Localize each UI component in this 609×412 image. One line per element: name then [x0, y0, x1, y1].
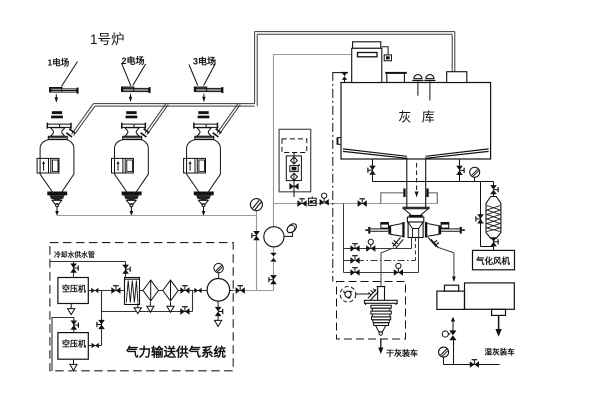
- bypass valve: [180, 307, 189, 315]
- gauge stem: [474, 177, 476, 181]
- silo roof relief valve: [333, 73, 348, 83]
- roof platform: [387, 74, 405, 83]
- chute bellows: [371, 305, 391, 325]
- valve on junction vertical: [97, 320, 105, 329]
- diamond valve lower in control box: [291, 173, 298, 180]
- junction vertical: [101, 291, 103, 346]
- chute top tube: [377, 287, 386, 301]
- fluidizing bracket right: [429, 193, 438, 204]
- receiver drain valve: [215, 307, 223, 316]
- filter 1: [143, 280, 158, 301]
- chute tail ball: [379, 332, 382, 335]
- valve line3: [350, 268, 359, 276]
- fluidizing air header (gray): [274, 203, 438, 205]
- chute inlet pipe hatches: [368, 289, 376, 296]
- bag filter cap: [353, 42, 381, 49]
- control valve on fluidizing header: [320, 193, 329, 206]
- blow line 1: [344, 248, 412, 250]
- regulator device in control box: [290, 165, 300, 171]
- pump tank vessel 3: [184, 111, 222, 206]
- supply shutoff valve outside box: [236, 286, 245, 294]
- receiver pressure gauge: [214, 263, 223, 272]
- roof inlet box: [447, 72, 467, 83]
- SEC_DOME: [407, 158, 426, 208]
- blower circle: [264, 227, 284, 247]
- blow line 2 dash-dot: [344, 260, 416, 262]
- dome valve side flange left (black): [402, 222, 404, 238]
- dash-dot boundary line: [332, 72, 334, 282]
- bypass drop: [480, 182, 482, 247]
- funnel top bar: [403, 207, 430, 208]
- pneumatic supply system dashed box: [50, 243, 233, 371]
- svg-text:库: 库: [422, 110, 435, 125]
- receiver drain stem: [217, 302, 219, 308]
- pump tank vessel 2: [111, 111, 149, 206]
- heater top valve: [490, 185, 498, 194]
- funnel cone: [404, 209, 429, 215]
- heater bottom valve: [490, 237, 498, 246]
- water supply line: [444, 364, 500, 366]
- svg-text:气力输送供气系统: 气力输送供气系统: [125, 345, 227, 360]
- dome valve upper box: [407, 217, 423, 222]
- SEC_TOP: [61, 62, 215, 87]
- vessel3 conveying diagonal: [217, 103, 240, 134]
- heat exchanger box: [125, 278, 140, 305]
- wet ash feed arrow: [452, 277, 456, 283]
- wet mixer ash inlet arrow already above; water inlet arrow: [451, 317, 455, 331]
- control valve line3: [394, 263, 403, 276]
- receiver drain triangle: [215, 316, 222, 327]
- wet mixer outlet box: [492, 309, 506, 315]
- inner device rect: [286, 156, 301, 181]
- left shaft: [370, 229, 388, 231]
- wet ash truck arrow: [495, 315, 501, 336]
- SEC_CENTER: [57, 55, 438, 291]
- blow feed vertical: [343, 204, 345, 273]
- svg-text:3电场: 3电场: [193, 56, 216, 67]
- svg-text:灰: 灰: [398, 110, 411, 125]
- dry ash truck arrow: [378, 339, 383, 355]
- water line valve: [470, 360, 479, 368]
- discharge tube flange left: [403, 189, 405, 198]
- fluidizing bracket left: [381, 193, 404, 204]
- feeder 2: [121, 87, 151, 94]
- vessel 2 discharge arrow: [130, 207, 132, 211]
- gauge stem: [443, 357, 445, 364]
- blower suction valve lower: [269, 275, 277, 284]
- valve on fluidizing header left: [297, 199, 306, 207]
- svg-text:空压机: 空压机: [62, 284, 86, 294]
- feeder 3: [194, 87, 224, 94]
- air compressor 1 box: [58, 278, 88, 304]
- main air line segments: [88, 290, 233, 292]
- right shaft: [441, 229, 460, 231]
- cooling valve compressor2: [71, 321, 79, 330]
- heater coil: [487, 206, 500, 232]
- check valve after compressor1: [91, 288, 98, 294]
- left cone flange (black): [388, 225, 390, 234]
- right cone flange (black): [439, 225, 441, 234]
- drain below filter2: [167, 302, 174, 313]
- cooling valve HX: [122, 265, 130, 274]
- bypass elbow: [481, 246, 494, 248]
- left actuator box with black cap: [380, 222, 389, 228]
- arrow below feeder 3: [202, 94, 205, 103]
- discharge tube dashed flow arrow: [416, 163, 418, 192]
- mushroom vent 1: [412, 75, 423, 81]
- valve line2: [350, 256, 359, 264]
- dryer bypass line: [102, 291, 193, 312]
- leader V field3 left: [189, 65, 198, 86]
- arrow below feeder 1: [55, 94, 58, 103]
- air heater vessel: [486, 197, 501, 239]
- conveying header double line: [93, 104, 254, 107]
- outlet valve after filters: [180, 286, 189, 294]
- bag filter vibrator motor: [384, 55, 391, 61]
- compressor2 outlet: [88, 345, 101, 347]
- leader V field2 left: [122, 63, 131, 86]
- wet mixer inlet box: [445, 285, 459, 291]
- dome valve internal seat: [408, 222, 423, 238]
- water control valve with actuator circle: [442, 330, 456, 340]
- right shaft tip: [462, 229, 465, 231]
- cooling water header: [50, 261, 125, 263]
- svg-text:湿灰装车: 湿灰装车: [485, 347, 516, 357]
- dome valve top flange (black): [409, 215, 423, 217]
- header left elbow to vessel1 diagonal: [72, 104, 95, 136]
- receiver gauge stem: [218, 273, 220, 278]
- SEC_TEXTS: [48, 32, 516, 360]
- right outlet leg double: [428, 238, 439, 249]
- wet mixer left box: [437, 291, 465, 309]
- chute top flange plate: [365, 300, 398, 305]
- aeration pressure gauge: [470, 167, 480, 177]
- dry ash chute feed line: [381, 248, 394, 287]
- valve line1: [350, 244, 359, 252]
- svg-text:空压机: 空压机: [62, 339, 86, 349]
- down leg double line into silo inlet box: [452, 32, 455, 72]
- water line vertical: [453, 340, 455, 364]
- dust fan rotor: [344, 291, 353, 299]
- fan outlet line: [356, 293, 370, 295]
- valve on damper drop: [252, 231, 260, 240]
- diamond valve upper in control box: [291, 157, 298, 164]
- riser double line to top: [255, 32, 258, 107]
- SEC_HEATER: [373, 159, 494, 250]
- bag filter inner window: [358, 53, 378, 57]
- bag filter side pipe bracket: [382, 47, 388, 55]
- pulse air top run to bag filter: [274, 54, 352, 56]
- heat exchanger coil: [126, 281, 138, 303]
- check valve after compressor2: [92, 343, 99, 349]
- svg-text:气化风机: 气化风机: [475, 256, 511, 266]
- heater risers: [493, 193, 495, 197]
- control box (pressure reducing station): [279, 129, 311, 192]
- left leg flange ticks: [392, 240, 398, 246]
- svg-text:1号炉: 1号炉: [90, 32, 125, 47]
- top run double line: [255, 32, 455, 35]
- leader line field1: [61, 62, 77, 87]
- wet ash feed line: [438, 247, 454, 276]
- vent 2 stem: [429, 81, 431, 101]
- bypass valve: [476, 214, 484, 223]
- air compressor 2 box: [58, 333, 88, 360]
- arrow below feeder 2: [129, 94, 132, 103]
- aeration header: [373, 181, 494, 183]
- leader V field3 right: [204, 64, 216, 86]
- mushroom vent 2: [424, 75, 435, 81]
- dry ash loading dashed box: [337, 282, 406, 340]
- cooling valve compressor1: [70, 264, 78, 273]
- tube left wall stub: [411, 238, 413, 249]
- water pressure gauge: [439, 347, 449, 357]
- valve below control box: [289, 183, 298, 190]
- inlet valve HX: [111, 286, 120, 294]
- feeder 1: [49, 87, 79, 94]
- blower motor tilted wheel: [285, 222, 298, 234]
- vent 1 stem: [417, 81, 419, 96]
- silo level probe: [337, 138, 341, 145]
- drain below compressor1: [68, 304, 75, 315]
- blower suction valve upper: [271, 253, 277, 261]
- aeration valve right: [456, 166, 464, 175]
- drain below HX: [134, 303, 141, 314]
- drain below compressor2: [70, 360, 77, 371]
- leader V field2 right: [133, 64, 146, 86]
- drop to compressor1: [73, 262, 75, 278]
- chute inlet diagonal pipe: [368, 289, 378, 300]
- supply line from compressor box: [233, 290, 273, 292]
- aeration drop left: [372, 159, 374, 182]
- dome valve main body: [408, 222, 423, 238]
- compressor2 cooling feed: [52, 318, 74, 372]
- pump on fluidizing header: [308, 196, 316, 205]
- vessel 3 discharge arrow: [203, 207, 205, 211]
- left outlet leg double: [393, 238, 403, 249]
- right leg flange ticks: [433, 240, 439, 246]
- svg-text:冷却水供水管: 冷却水供水管: [54, 250, 95, 259]
- vessel 1 discharge arrow: [56, 207, 58, 211]
- tube right wall stub: [418, 238, 420, 273]
- SEC_SILO: [341, 83, 491, 160]
- inner dashed rect: [282, 139, 307, 153]
- svg-text:1电场: 1电场: [48, 58, 70, 68]
- check valve before receiver: [194, 288, 201, 294]
- vessel2 conveying diagonal: [145, 103, 168, 134]
- silo hopper slope left double: [343, 149, 407, 158]
- ash silo box: [341, 83, 491, 160]
- damper circle on vessel header: [250, 199, 262, 211]
- blower suction riser: [273, 247, 275, 291]
- right shaft end flange: [460, 227, 462, 234]
- silo discharge tube walls: [406, 158, 408, 208]
- discharge tube flange right: [426, 189, 428, 198]
- aeration valve left: [368, 166, 376, 175]
- air receiver: [207, 279, 230, 302]
- dome valve side flange right (black): [425, 222, 427, 238]
- svg-text:干灰装车: 干灰装车: [386, 348, 418, 358]
- svg-text:2电场: 2电场: [122, 55, 145, 66]
- blower motor stub: [284, 233, 293, 237]
- left shaft end flange: [368, 227, 370, 234]
- left cone to actuator: [391, 224, 403, 237]
- drain below filter1: [147, 302, 154, 313]
- vessel discharge header (gray): [57, 215, 257, 217]
- filter 2: [163, 280, 178, 301]
- header elbow to heater: [493, 182, 495, 187]
- pump tank vessel 1: [37, 111, 75, 206]
- SEC_PIPES: [72, 32, 455, 136]
- wet mixer main drum: [465, 283, 515, 309]
- bag filter body: [352, 48, 382, 82]
- aeration blower box 气化风机: [473, 250, 515, 269]
- pulse air riser (gray): [273, 55, 275, 227]
- tube center dashed stub: [415, 238, 417, 261]
- control valve line1: [366, 239, 375, 252]
- silo hopper slope right double: [426, 149, 489, 158]
- dust fan dashed circle: [340, 287, 356, 303]
- blow line 3: [344, 272, 419, 274]
- left shaft tip: [365, 229, 368, 231]
- connector line: [293, 153, 295, 156]
- damper drop line: [256, 211, 258, 291]
- right cone to actuator: [427, 224, 439, 237]
- right actuator box with black cap: [441, 222, 450, 228]
- valve on fluidizing header right of boundary: [358, 199, 367, 207]
- aeration drop right: [459, 159, 461, 182]
- drop to heat exchanger: [125, 262, 127, 278]
- chute tail cone: [376, 326, 386, 332]
